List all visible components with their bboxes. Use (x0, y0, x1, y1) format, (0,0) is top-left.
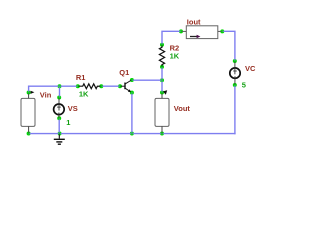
svg-text:1K: 1K (170, 51, 180, 60)
svg-text:Vout: Vout (174, 104, 191, 113)
svg-text:5: 5 (242, 80, 246, 89)
svg-text:Iout: Iout (187, 18, 201, 27)
svg-text:1: 1 (66, 118, 70, 127)
svg-text:Vin: Vin (40, 90, 52, 99)
svg-text:VS: VS (68, 104, 78, 113)
svg-text:R1: R1 (76, 73, 86, 82)
svg-text:VC: VC (245, 64, 256, 73)
svg-text:1K: 1K (79, 90, 89, 99)
svg-text:Q1: Q1 (119, 68, 129, 77)
